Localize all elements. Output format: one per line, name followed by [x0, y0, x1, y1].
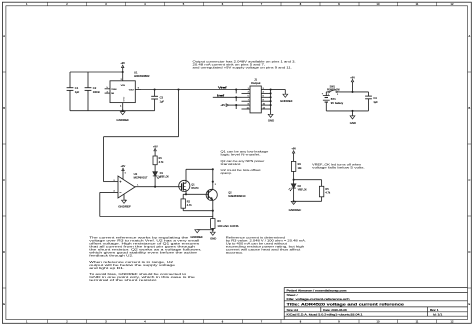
svg-text:GND: GND [122, 97, 124, 102]
wire R3 bottom to GNDREF [197, 229, 213, 231]
junction Q1 source node [185, 193, 187, 195]
wire feedback down from Vref [178, 90, 180, 137]
wire Kelvin sense to R3 [100, 216, 213, 218]
power +9V symbol at U1 [120, 61, 125, 72]
wire link pins 1-3 [235, 90, 237, 94]
svg-text:and unregulated +9V supply vol: and unregulated +9V supply voltage on pi… [193, 67, 293, 70]
wire D2 to gnd rail [293, 188, 295, 201]
wire Q1 drain up [185, 169, 187, 181]
wire connector right common [270, 90, 272, 115]
power +9V symbol at R1 [153, 144, 158, 156]
wire D1 to op-amp output [154, 176, 156, 187]
label Vref [218, 85, 227, 89]
capacitor C2 100nF [85, 72, 101, 111]
ground GND battery [350, 111, 357, 125]
svg-text:Iref: Iref [217, 93, 224, 97]
LED D1 IREF_OK [153, 172, 169, 179]
wire emitter node to R3 [212, 211, 214, 219]
comment about Q1 Q2 U2 choices [221, 151, 270, 176]
svg-text:+9V: +9V [120, 61, 125, 65]
capacitor C3 1uF [151, 90, 164, 111]
wire feedback across to op-amp [104, 136, 179, 138]
svg-text:E: E [3, 302, 5, 306]
svg-text:Petteri Aimonen / essentialscr: Petteri Aimonen / essentialscrap.com [287, 288, 348, 292]
junction Q2 collector [212, 181, 214, 183]
svg-text:Id: 1/1: Id: 1/1 [433, 313, 443, 316]
svg-text:GNDREF: GNDREF [118, 206, 131, 209]
wire battery bottom rail [326, 110, 368, 112]
svg-text:GNDREF: GNDREF [116, 119, 129, 122]
svg-text:MCP6V01T: MCP6V01T [134, 178, 149, 180]
svg-text:E: E [469, 302, 471, 306]
svg-text:100nF: 100nF [93, 92, 101, 94]
svg-text:A: A [469, 34, 471, 38]
svg-text:B: B [469, 106, 471, 110]
U2 pin numbers [114, 173, 139, 202]
U1 reference designator [134, 71, 150, 78]
resistor R5 4.7k [319, 180, 331, 202]
op-amp U2 triangle [118, 176, 135, 198]
svg-text:GNDREF: GNDREF [190, 236, 203, 239]
svg-text:feedback through U2.: feedback through U2. [89, 255, 134, 258]
wire node to R5 top [294, 179, 322, 181]
svg-text:File: voltage-current-referenc: File: voltage-current-reference.sch [287, 298, 351, 301]
svg-text:BS170: BS170 [191, 188, 199, 190]
wire bypass cap top rail [70, 71, 123, 73]
svg-text:BT1: BT1 [331, 99, 337, 101]
svg-text:+9V: +9V [220, 103, 225, 107]
svg-text:D: D [3, 250, 5, 254]
junction Iref at drain branch [212, 168, 214, 170]
resistor R1 4.7k [153, 156, 164, 165]
wire +9V to U1 VIN [122, 72, 124, 81]
svg-text:ADR4520BRZ: ADR4520BRZ [134, 75, 150, 78]
U2 reference designator [134, 173, 149, 179]
junction indicator gnd [293, 200, 295, 202]
power +9V symbol battery [350, 75, 355, 92]
U1 pin 5 TRIM [105, 87, 117, 91]
svg-text:opamp.: opamp. [221, 172, 233, 175]
wire Q1 source to Q2 base [183, 193, 206, 195]
svg-text:+9V: +9V [291, 147, 296, 151]
svg-text:accuracy.: accuracy. [226, 252, 244, 255]
power +9V symbol at R4 [291, 147, 296, 162]
ground GNDREF at shunt [190, 230, 203, 239]
wire R2 bottom to emitter node [183, 210, 213, 212]
U1 pin 4 GND bottom [120, 97, 124, 111]
svg-text:3: 3 [114, 180, 115, 182]
ground GND at shunt [210, 232, 217, 240]
transistor Q1 BS170 [179, 180, 199, 191]
svg-text:terminal of the shunt resistor: terminal of the shunt resistor. [89, 279, 158, 282]
comment about R3 value [226, 236, 307, 254]
junction pin 9 [235, 104, 237, 106]
wire battery top rail [340, 91, 369, 93]
wire R1 to D1 [154, 165, 156, 172]
svg-text:C: C [3, 178, 5, 182]
ground GND under connector [268, 114, 275, 122]
svg-text:Vref: Vref [218, 85, 227, 89]
svg-text:GND: GND [268, 120, 275, 123]
svg-text:VIN: VIN [121, 85, 126, 87]
ground GNDREF right of connector [280, 94, 293, 103]
comment about VREF_OK led [312, 163, 365, 169]
svg-text:Rev: 1: Rev: 1 [430, 309, 439, 312]
svg-text:Size: A4: Size: A4 [287, 309, 299, 312]
svg-text:1µF: 1µF [373, 102, 378, 104]
svg-text:100 ohm 0.01%: 100 ohm 0.01% [217, 226, 238, 228]
wire op-amp - sense down [99, 192, 101, 216]
svg-text:MJE4530/9F10: MJE4530/9F10 [228, 196, 246, 198]
svg-text:A: A [3, 34, 5, 38]
svg-text:GNDREF: GNDREF [280, 100, 293, 103]
wire Vref from U1 VOUT to connector [141, 89, 242, 91]
junction R3 bottom [212, 229, 214, 231]
wire into op-amp + input [104, 181, 119, 183]
wire feedback down to op-amp + [103, 137, 105, 182]
ground GNDREF under U1 [116, 112, 129, 123]
ground GNDREF at U2 [118, 194, 131, 209]
resistor R2 4.7k [181, 194, 193, 210]
wire Iref down to Q2 collector [212, 169, 214, 181]
svg-text:logic level N-mosfet.: logic level N-mosfet. [221, 154, 262, 157]
svg-text:TRIM: TRIM [111, 89, 116, 91]
svg-text:KiCad E.D.A. kicad 5.0.2+dfsg: KiCad E.D.A. kicad 5.0.2+dfsg1~ubuntu18.… [287, 313, 364, 316]
wire Q1 drain to Iref line [186, 168, 213, 170]
svg-text:NR: NR [111, 93, 114, 95]
LED D2 VREF_OK [289, 180, 307, 192]
wire link pins 9-11 [235, 105, 237, 109]
U1 pin 2 VIN top [121, 79, 126, 87]
wire gnd rail under U1 [70, 110, 155, 112]
svg-text:Output: Output [251, 82, 261, 85]
junction pin 1 [235, 88, 237, 90]
svg-text:IREF_OK: IREF_OK [160, 176, 169, 178]
comment about output connector [193, 61, 297, 70]
comment about current reference operation [89, 236, 202, 282]
svg-text:+9V: +9V [350, 75, 355, 79]
label Iref [217, 93, 224, 97]
svg-text:C: C [468, 178, 470, 182]
junction R4 bottom node [293, 179, 295, 181]
svg-text:Title: ADR4520 voltage and cur: Title: ADR4520 voltage and current refer… [287, 303, 405, 307]
svg-text:D: D [468, 250, 470, 254]
wire R3 bottom [212, 228, 214, 232]
svg-text:GNDREF: GNDREF [289, 209, 302, 212]
svg-text:Date: 2020-03-08: Date: 2020-03-08 [323, 309, 347, 312]
connector J1 Output 2x6 header [242, 79, 271, 113]
svg-text:GND: GND [210, 238, 217, 241]
junction op-amp output at D1 [154, 186, 156, 188]
svg-text:2: 2 [215, 184, 216, 186]
capacitor C1 1uF [67, 72, 80, 111]
junction Vref feedback tap [177, 88, 179, 90]
U1 pin 6 VOUT [129, 88, 141, 92]
svg-text:1µF: 1µF [75, 92, 80, 94]
svg-text:Sheet: /: Sheet: / [287, 294, 298, 297]
title block [284, 288, 467, 320]
junction +9V rail at U1 [122, 71, 124, 73]
svg-text:and light up D1.: and light up D1. [89, 267, 125, 270]
svg-text:5: 5 [125, 173, 126, 175]
resistor R4 10k [291, 161, 302, 171]
wire op-amp output [135, 186, 179, 188]
svg-text:9V battery: 9V battery [331, 102, 344, 105]
wire Iref to pin 5 [213, 96, 242, 98]
svg-text:transistor.: transistor. [221, 163, 243, 166]
svg-text:GND: GND [350, 122, 357, 125]
power +9V symbol at connector [220, 103, 241, 107]
junction pin 5 [235, 96, 237, 98]
junction battery gnd [351, 110, 353, 112]
battery BT1 9V [322, 92, 344, 111]
ground GNDREF indicator [289, 201, 302, 212]
wire op-amp - input [100, 191, 118, 193]
junction C3 top [154, 88, 156, 90]
switch SW1 POWER_SW [326, 85, 340, 96]
wire indicator gnd rail [294, 200, 322, 202]
wire link pins 5-7 [235, 97, 237, 101]
power +9V symbol at U2 [121, 164, 126, 179]
IC U1 ADR4520 body [110, 81, 135, 103]
svg-text:VOUT: VOUT [129, 90, 135, 92]
svg-text:VREF_OK: VREF_OK [298, 190, 307, 192]
svg-text:+9V: +9V [153, 144, 158, 148]
U1 pin 3 NR [105, 91, 115, 95]
svg-text:SW1: SW1 [330, 85, 336, 88]
svg-text:1µF: 1µF [160, 101, 165, 103]
svg-text:B: B [3, 106, 5, 110]
wire pin2 to GNDREF [271, 90, 286, 95]
wire R4 to node [293, 171, 295, 179]
junction gnd rail at U1 [122, 110, 124, 112]
junction emitter node [212, 210, 214, 212]
capacitor C4 1uF [365, 92, 378, 111]
wire Q1 source to node [185, 191, 187, 194]
svg-text:voltage falls below 5 volts.: voltage falls below 5 volts. [312, 167, 365, 170]
transistor Q2 NPN [206, 182, 246, 211]
junction +9V battery rail [351, 91, 353, 93]
resistor R3 100 ohm [211, 219, 239, 229]
junctions connector right pins [270, 88, 272, 106]
